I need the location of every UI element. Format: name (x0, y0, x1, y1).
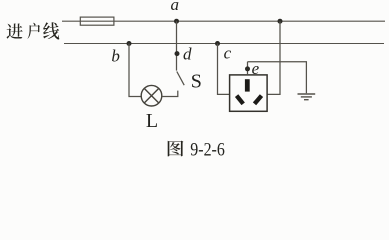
svg-text:b: b (111, 47, 120, 66)
svg-text:S: S (191, 71, 202, 93)
node c (junction dot on lower wire) (215, 41, 220, 46)
socket right slot (255, 96, 262, 104)
wire: lamp to switch lower contact (162, 91, 178, 97)
node d (dot on switch feed) (175, 51, 180, 56)
node b (junction dot on lower wire) (127, 41, 132, 46)
svg-text:L: L (146, 110, 158, 132)
wire N: lower supply line (64, 43, 384, 45)
wire: e lead over to earth electrode (248, 62, 307, 93)
wire: e stub into socket top (247, 62, 249, 75)
switch S blade (open) (177, 72, 184, 86)
socket left slot (237, 96, 244, 104)
svg-text:d: d (183, 45, 192, 64)
ground symbol (298, 94, 316, 100)
junction on top wire feeding socket earth-side branch (278, 19, 283, 24)
wire L: top supply line (62, 20, 385, 22)
wire: top junction down and left to socket right side (267, 21, 280, 94)
node a (junction dot on top wire) (174, 19, 179, 24)
svg-text:a: a (171, 0, 180, 14)
socket earth slot (top centre) (245, 79, 250, 91)
wire: b down to lamp (129, 44, 141, 97)
caption 图 9-2-6 (168, 141, 184, 157)
wire: a down to switch (176, 21, 178, 70)
fuse F1 on top wire (80, 17, 114, 25)
wire: c down and right to socket left side (218, 44, 230, 95)
svg-text:9-2-6: 9-2-6 (190, 140, 225, 160)
label 进户线 (service-entrance wires) (6, 22, 59, 39)
node e (dot on socket earth lead) (245, 66, 250, 71)
svg-text:c: c (224, 44, 232, 63)
lamp L (circle with cross) (141, 85, 162, 106)
socket XS (outlet body) (230, 75, 268, 111)
